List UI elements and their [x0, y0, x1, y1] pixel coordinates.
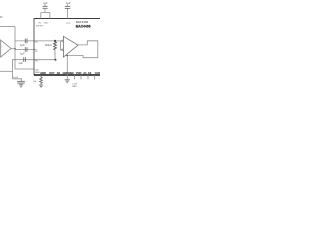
svg-text:0.1µF: 0.1µF [13, 77, 19, 79]
wire top-left input [0, 26, 15, 28]
svg-text:A2: A2 [88, 71, 92, 75]
capacitor C5 top (x=45) [43, 6, 48, 8]
svg-text:IN: IN [0, 16, 3, 19]
wire IN+ horizontal [15, 40, 62, 42]
pin stub A3 (x=94.7) [94, 75, 96, 79]
svg-text:1µF: 1µF [20, 52, 25, 56]
capacitor C2 1uF plates [25, 47, 27, 52]
capacitor C6 top (x=67.5) [65, 6, 70, 8]
svg-text:A1: A1 [83, 71, 87, 75]
node dot at bus/apex [14, 48, 16, 50]
node dot R1 top [54, 40, 56, 42]
resistor R2 bottom-left zigzag [40, 75, 43, 85]
svg-text:LOW: LOW [72, 83, 77, 85]
wire C6 to pin [67, 8, 69, 18]
svg-text:MIC: MIC [35, 69, 39, 71]
ground symbol G3 [19, 85, 23, 88]
bottom pin labels row [40, 71, 101, 75]
wire minus input tap [61, 41, 62, 50]
svg-text:SUPPLY: SUPPLY [36, 26, 44, 28]
svg-text:1µF: 1µF [18, 61, 23, 65]
svg-text:GND: GND [40, 71, 46, 75]
node dot feedback/gnd [67, 55, 69, 57]
input circle + [62, 40, 64, 42]
wire C5 stub up [44, 4, 46, 6]
svg-text:VDD: VDD [44, 23, 49, 25]
op-amp U1 triangle [63, 36, 78, 57]
input circle - [62, 49, 64, 51]
ground symbol G1 [65, 80, 70, 83]
node dot FB [55, 59, 57, 61]
wire FB horizontal [12, 59, 56, 61]
microphone buffer triangle [1, 40, 11, 57]
resistor R1 vertical zigzag [54, 42, 57, 51]
svg-text:1µF: 1µF [20, 43, 25, 47]
wire IN- horizontal [15, 49, 37, 51]
pin stub A2 [87, 75, 89, 79]
pin stub A0 [74, 75, 76, 79]
wire C5 pi-bracket to pins [41, 8, 50, 18]
svg-text:BATT: BATT [72, 85, 78, 88]
capacitor C1 1uF plates [25, 39, 27, 44]
svg-text:IN-: IN- [35, 51, 38, 53]
wire to C4 [13, 79, 22, 82]
wire mic apex to bus [11, 48, 15, 50]
svg-text:OUT: OUT [95, 71, 100, 75]
wire left vertical bus [15, 27, 34, 70]
svg-text:REF: REF [69, 71, 75, 75]
svg-text:MAX4466: MAX4466 [76, 24, 91, 28]
wire bottom-left branch [12, 60, 14, 79]
svg-text:OUT: OUT [49, 71, 55, 75]
wire C4 to ground [20, 83, 22, 85]
pin stub A1 [80, 75, 82, 79]
svg-text:1µF: 1µF [66, 1, 71, 5]
svg-text:VDD: VDD [76, 71, 82, 75]
capacitor C3 1uF plates [24, 57, 26, 62]
wire bottom-left input [0, 70, 13, 72]
IC box bottom edge [34, 74, 100, 76]
wire to GND pin down [66, 56, 68, 75]
svg-text:100kΩ: 100kΩ [45, 44, 52, 47]
IC box top edge [34, 18, 100, 20]
wire GND pin stub below box [66, 75, 68, 80]
wire R1 bottom to FB node [54, 50, 56, 60]
svg-text:1µF: 1µF [43, 2, 48, 5]
capacitor C4 plates (bottom-left) [17, 81, 25, 83]
ground symbol G2 [39, 85, 43, 88]
svg-text:VCC: VCC [66, 23, 71, 25]
wire C6 stub up [67, 4, 69, 6]
wire output with feedback loop [66, 41, 98, 58]
IC box left edge [33, 18, 35, 75]
svg-text:A0: A0 [57, 71, 61, 75]
